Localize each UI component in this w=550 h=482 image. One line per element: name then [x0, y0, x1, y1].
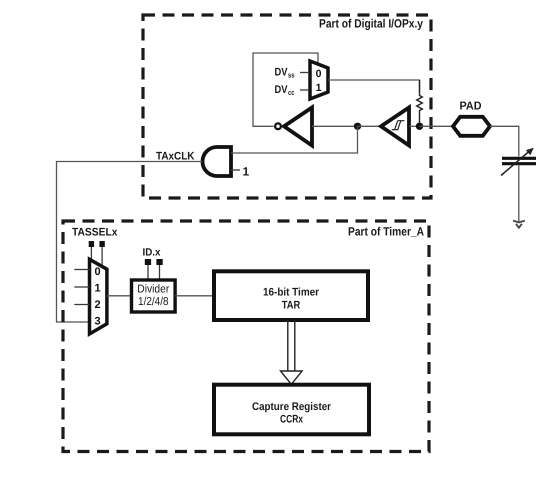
svg-text:CCRx: CCRx	[280, 413, 304, 425]
divider block Divider 1/2/4/8	[132, 280, 176, 312]
wire TASSELx bit 2 to mux	[101, 247, 103, 267]
Schmitt trigger buffer U3	[381, 108, 409, 146]
TASSELx select bit square 1	[89, 241, 94, 247]
wire feedback loop from inverter output to mux select	[253, 53, 318, 126]
svg-text:Divider: Divider	[137, 284, 169, 296]
svg-text:DV: DV	[275, 67, 289, 79]
wire stub mux U5 input 0	[74, 269, 89, 271]
svg-text:1/2/4/8: 1/2/4/8	[138, 296, 169, 308]
label DVcc	[275, 84, 295, 97]
mux U1 pin label 0	[316, 68, 322, 80]
svg-text:1: 1	[316, 82, 322, 94]
label PAD	[460, 101, 482, 113]
label ID.x	[143, 247, 161, 259]
AND gate U4	[203, 147, 232, 176]
svg-text:TASSELx: TASSELx	[72, 227, 118, 239]
dashed region box Part of Timer_A	[63, 221, 429, 452]
wire TAxCLK from AND output to TASSEL mux input 3	[57, 162, 203, 323]
wire Schmitt input to node B	[409, 125, 420, 127]
svg-text:2: 2	[94, 299, 100, 311]
wire stub mux U5 input 2	[74, 304, 89, 306]
label TAxCLK	[156, 151, 195, 163]
ID.x bit square 2	[156, 259, 162, 265]
label DVss	[275, 67, 295, 80]
mux U5 TASSEL trapezoid	[90, 259, 107, 334]
svg-text:TAR: TAR	[282, 300, 301, 312]
svg-text:3: 3	[94, 315, 100, 327]
wire stub mux U5 input 1	[74, 286, 89, 288]
mux U1 pin label 1	[316, 82, 322, 94]
wire node A to Schmitt output	[358, 125, 381, 127]
svg-text:0: 0	[316, 68, 322, 80]
wire inverter input to node A	[312, 125, 358, 127]
svg-text:DV: DV	[275, 84, 289, 96]
wire Divider to 16-bit Timer TAR	[175, 295, 214, 297]
ground symbol	[513, 221, 525, 228]
svg-text:0: 0	[94, 266, 100, 278]
svg-text:Part of Timer_A: Part of Timer_A	[348, 225, 424, 239]
wire DVcc stub to mux pin 1	[300, 89, 309, 91]
label Part of Digital I/OPx.y	[319, 17, 423, 31]
block Capture Register CCRx	[214, 385, 369, 435]
node A junction dot	[354, 123, 361, 130]
svg-text:PAD: PAD	[460, 101, 482, 113]
wire node A down to AND gate top input	[231, 126, 358, 153]
pad PAD hexagon	[453, 117, 490, 136]
dashed region box Part of Digital I/OPx.y	[143, 15, 431, 198]
svg-text:1: 1	[94, 282, 100, 294]
svg-text:ss: ss	[288, 70, 295, 79]
svg-text:TAxCLK: TAxCLK	[156, 151, 195, 163]
label Part of Timer_A	[348, 225, 424, 239]
resistor R1	[417, 80, 423, 126]
capacitor C1 variable	[501, 148, 536, 176]
wire DVss stub to mux pin 0	[300, 72, 309, 74]
mux U5 pin label 3	[94, 315, 100, 327]
svg-text:cc: cc	[288, 88, 295, 97]
svg-text:ID.x: ID.x	[143, 247, 161, 259]
ID.x bit square 1	[145, 259, 151, 265]
mux U5 pin label 0	[94, 266, 100, 278]
svg-text:1: 1	[243, 165, 250, 179]
mux U1 DVss/DVcc select trapezoid	[310, 61, 328, 99]
hollow arrow TAR to CCRx	[281, 320, 303, 384]
label constant 1 at AND input	[243, 165, 250, 179]
wire mux U1 output to resistor top	[328, 80, 420, 92]
TASSELx select bit square 2	[99, 241, 104, 247]
wire node B to PAD	[420, 125, 454, 127]
mux U5 pin label 1	[94, 282, 100, 294]
block 16-bit Timer TAR	[214, 271, 368, 320]
svg-text:16-bit Timer: 16-bit Timer	[263, 286, 320, 298]
svg-text:Part of Digital I/OPx.y: Part of Digital I/OPx.y	[319, 17, 423, 31]
inverter U2	[275, 108, 312, 146]
node B junction dot resistor/PAD	[416, 123, 423, 130]
wire ID.x bit 2 to Divider	[159, 265, 161, 280]
wire AND gate constant input stub	[231, 169, 240, 171]
wire mux U5 output to Divider	[107, 295, 132, 297]
wire PAD to capacitor	[490, 126, 519, 156]
wire ID.x bit 1 to Divider	[147, 265, 149, 280]
mux U5 pin label 2	[94, 299, 100, 311]
wire capacitor to ground	[518, 166, 520, 222]
svg-text:Capture Register: Capture Register	[252, 401, 332, 413]
label TASSELx	[72, 227, 118, 239]
wire TASSELx bit 1 to mux	[90, 247, 92, 261]
